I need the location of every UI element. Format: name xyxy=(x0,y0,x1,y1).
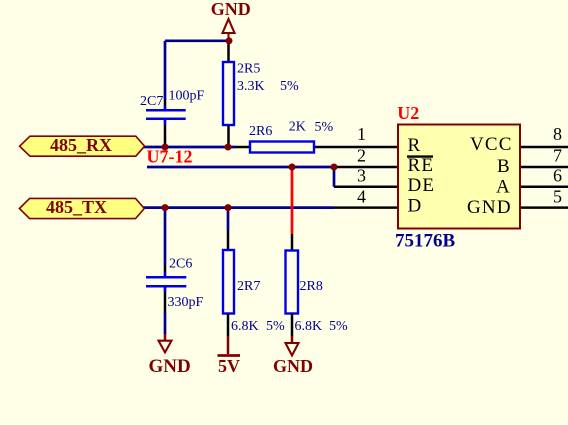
svg-text:5%: 5% xyxy=(280,79,299,94)
svg-text:1: 1 xyxy=(357,124,366,144)
svg-text:2K: 2K xyxy=(289,120,306,135)
svg-text:485_TX: 485_TX xyxy=(46,197,107,217)
svg-text:RE: RE xyxy=(408,155,435,176)
svg-text:U7-12: U7-12 xyxy=(147,147,193,167)
svg-text:6.8K: 6.8K xyxy=(231,319,259,334)
svg-text:3.3K: 3.3K xyxy=(237,79,265,94)
svg-text:GND: GND xyxy=(467,197,512,218)
svg-text:5V: 5V xyxy=(218,356,240,376)
svg-text:4: 4 xyxy=(357,186,366,206)
svg-text:3: 3 xyxy=(357,166,366,186)
svg-text:GND: GND xyxy=(211,0,251,19)
svg-text:R: R xyxy=(408,135,422,156)
svg-text:GND: GND xyxy=(273,356,313,376)
svg-text:5%: 5% xyxy=(266,319,285,334)
svg-text:5%: 5% xyxy=(329,319,348,334)
svg-text:2C7: 2C7 xyxy=(140,94,163,109)
svg-text:6: 6 xyxy=(553,166,562,186)
svg-text:5: 5 xyxy=(553,186,562,206)
svg-text:2C6: 2C6 xyxy=(169,257,192,272)
svg-text:GND: GND xyxy=(149,356,191,377)
svg-text:75176B: 75176B xyxy=(395,231,456,252)
svg-text:485_RX: 485_RX xyxy=(50,135,112,155)
svg-text:2R7: 2R7 xyxy=(237,279,260,294)
svg-text:U2: U2 xyxy=(397,103,419,123)
svg-text:8: 8 xyxy=(553,124,562,144)
svg-text:2R5: 2R5 xyxy=(237,62,260,77)
svg-text:2R8: 2R8 xyxy=(300,279,323,294)
svg-text:DE: DE xyxy=(408,175,436,196)
svg-text:100pF: 100pF xyxy=(169,89,205,104)
svg-text:A: A xyxy=(496,177,511,198)
svg-text:7: 7 xyxy=(553,145,562,165)
svg-text:2: 2 xyxy=(357,145,366,165)
svg-text:D: D xyxy=(408,196,423,217)
svg-text:B: B xyxy=(497,156,511,177)
svg-text:330pF: 330pF xyxy=(168,295,204,310)
svg-text:5%: 5% xyxy=(315,120,334,135)
svg-text:2R6: 2R6 xyxy=(249,124,272,139)
svg-text:6.8K: 6.8K xyxy=(295,319,323,334)
svg-text:VCC: VCC xyxy=(470,134,513,155)
